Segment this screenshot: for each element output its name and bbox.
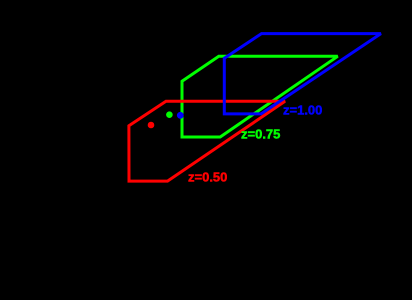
svg-text:z=0.50: z=0.50 (188, 170, 227, 185)
green selection polygon z=0.75 (182, 56, 338, 137)
green data point (166, 111, 173, 118)
blue data point (177, 112, 184, 119)
red data point (148, 122, 155, 129)
svg-text:z=0.75: z=0.75 (241, 126, 280, 141)
red selection polygon z=0.50 (129, 101, 285, 181)
blue selection polygon z=1.00 (224, 34, 381, 114)
svg-text:z=1.00: z=1.00 (283, 103, 322, 118)
